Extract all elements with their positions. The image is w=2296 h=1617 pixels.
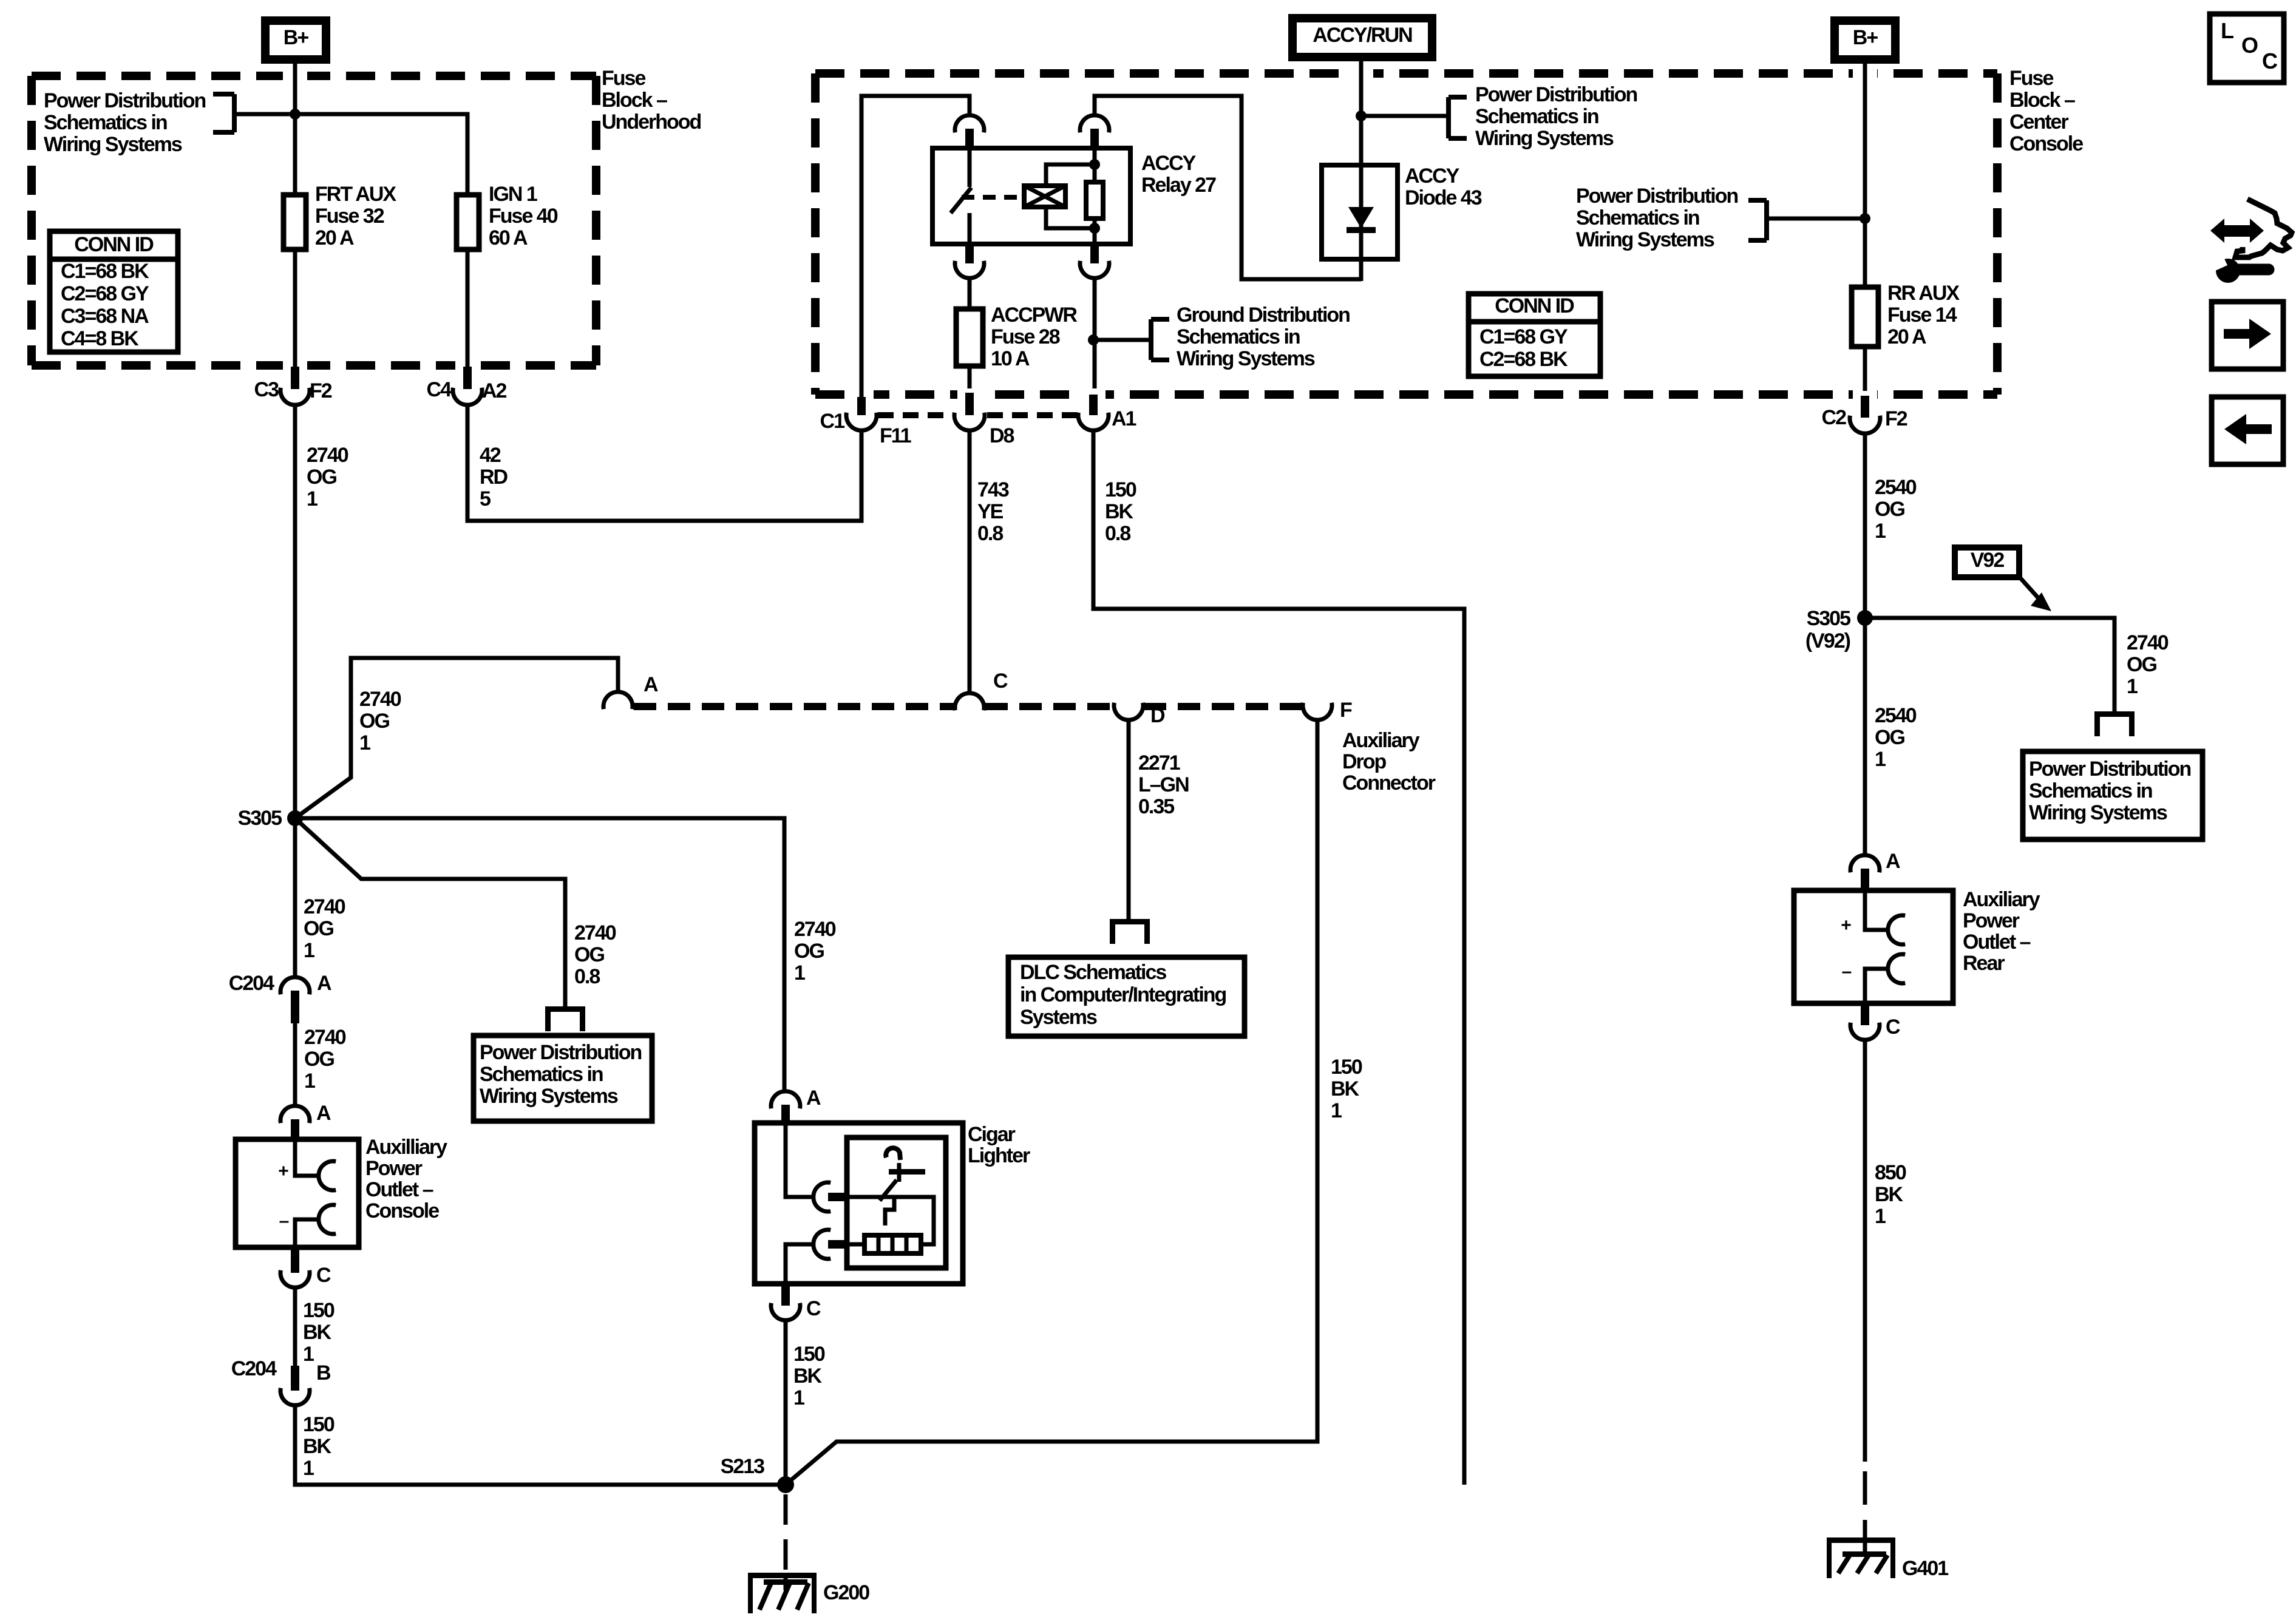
auxiliary power outlet - rear box: [1794, 890, 1953, 1003]
connector relay pin 87 (bottom left): [955, 244, 984, 278]
label circuit 850 BK 1: [1875, 1161, 1906, 1228]
wire ACCY/RUN down to diode splice: [1359, 61, 1364, 165]
svg-text:AuxiliaryDropConnector: AuxiliaryDropConnector: [1342, 729, 1436, 795]
connector rear outlet pin A: [1850, 850, 1900, 890]
svg-text:V92: V92: [1971, 549, 2005, 572]
wire C1 riser to relay pin 30: [861, 96, 970, 398]
svg-text:F2: F2: [1885, 407, 1907, 430]
svg-text:2271L–GN0.35: 2271L–GN0.35: [1138, 751, 1189, 818]
wire S305 branch to cigar lighter: [295, 818, 784, 1091]
conn id table (center console): [1469, 294, 1600, 376]
splice S305 (left): [238, 807, 303, 830]
svg-text:2540OG1: 2540OG1: [1875, 476, 1917, 543]
wire C204 A to console outlet: [293, 1023, 297, 1106]
label cigar lighter: [968, 1123, 1030, 1167]
console outlet plus terminal: [278, 1139, 336, 1190]
label power distribution schematics in wiring systems (right middle): [1576, 185, 1737, 251]
icon arrow previous box: [2212, 397, 2283, 464]
connector console outlet pin C: [280, 1247, 331, 1287]
cigar lighter heater loop wire: [880, 1197, 934, 1244]
svg-text:C3: C3: [254, 378, 279, 401]
node splice on left B+ feed: [290, 109, 301, 120]
svg-text:FuseBlock –CenterConsole: FuseBlock –CenterConsole: [2009, 67, 2083, 155]
svg-text:S213: S213: [721, 1455, 764, 1478]
relay ACCY Relay 27 box: [932, 148, 1130, 244]
svg-text:+: +: [278, 1161, 288, 1181]
svg-text:AuxilliaryPowerOutlet –Console: AuxilliaryPowerOutlet –Console: [365, 1136, 447, 1222]
wire drop D to DLC destination: [1127, 720, 1131, 919]
wire splice to bracket (top right): [1361, 114, 1449, 118]
fuse FRT AUX Fuse 32 20A: [284, 195, 306, 249]
wire C3 to S305 splice: [293, 405, 297, 818]
connector rear outlet pin C: [1850, 1003, 1900, 1040]
svg-text:2740OG1: 2740OG1: [2127, 631, 2169, 698]
wire dashed segment to G401: [1863, 1471, 1867, 1545]
svg-text:O: O: [2241, 33, 2258, 58]
label circuit 2271 L-GN 0.35: [1138, 751, 1189, 818]
cigar lighter element curl: [886, 1148, 900, 1160]
svg-text:C1: C1: [820, 410, 845, 433]
label circuit 743 YE 0.8: [977, 478, 1009, 545]
label fuse 40: [489, 183, 558, 249]
connector C2 pin F2: [1822, 396, 1907, 433]
svg-text:A: A: [316, 1102, 331, 1125]
wire C2 to splice S305 (V92): [1863, 433, 1867, 618]
label circuit 42 RD 5: [480, 444, 508, 510]
bracket reference: power distribution schematics (left): [213, 94, 234, 132]
connector drop pin D: [1114, 703, 1165, 727]
svg-text:150BK1: 150BK1: [793, 1343, 825, 1409]
conn id table (underhood): [50, 231, 178, 352]
rear outlet plus terminal: [1841, 890, 1905, 944]
cigar lighter outer box: [755, 1123, 963, 1284]
bracket reference: ground distribution: [1151, 319, 1169, 360]
svg-text:D8: D8: [990, 424, 1014, 447]
node splice ground ref: [1088, 334, 1099, 345]
svg-text:C: C: [993, 670, 1008, 693]
svg-text:2740OG1: 2740OG1: [359, 688, 401, 754]
label circuit 150 BK 1 (drop F): [1331, 1056, 1362, 1122]
fuse block - underhood dashed box: [32, 67, 596, 374]
cigar lighter feed socket: [786, 1123, 880, 1212]
relay resistor: [1086, 148, 1103, 244]
icon vehicle outline with arrow and wrench: [2210, 199, 2292, 283]
svg-text:RR AUXFuse 1420 A: RR AUXFuse 1420 A: [1887, 282, 1960, 348]
label circuit 150 BK 0.8: [1105, 478, 1136, 545]
wire S305 down to C204 A: [293, 818, 297, 977]
svg-text:B+: B+: [284, 26, 309, 49]
relay switch: [951, 148, 1024, 244]
svg-text:850BK1: 850BK1: [1875, 1161, 1906, 1228]
destination symbol (DLC): [1110, 919, 1150, 944]
boxed reference: DLC schematics: [1008, 957, 1245, 1036]
wire splice to ground bracket: [1093, 338, 1151, 342]
connector relay pin 86 (top right): [1080, 115, 1109, 148]
splice S213: [721, 1455, 794, 1493]
wire C4 42 RD 5 over to C1: [467, 405, 861, 521]
label fuse 28: [991, 303, 1077, 370]
power rail ACCY/RUN box: [1292, 18, 1432, 57]
relay coil (boxed X): [1024, 164, 1095, 228]
wire D8 to drop connector C: [968, 430, 972, 692]
console outlet minus terminal: [279, 1205, 336, 1247]
svg-text:(V92): (V92): [1805, 629, 1850, 653]
power rail B+ box (right): [1835, 21, 1895, 59]
connector C3 pin F2: [254, 367, 332, 405]
fuse RR AUX Fuse 14 20A: [1852, 287, 1878, 347]
node splice above ACCY diode: [1356, 110, 1367, 121]
svg-text:G200: G200: [823, 1581, 869, 1604]
cigar lighter return socket: [786, 1230, 864, 1284]
label fuse 14: [1887, 282, 1960, 348]
connector drop pin F: [1303, 699, 1352, 722]
destination symbol (left): [545, 1006, 585, 1031]
V92 tag box: [1955, 547, 2019, 577]
svg-text:2740OG1: 2740OG1: [304, 895, 345, 962]
wire splice to bracket (right middle): [1767, 217, 1865, 221]
label circuit 2740 OG 1 (outlet feed): [304, 1026, 346, 1093]
auxiliary drop connector dashed line: [634, 703, 1302, 710]
svg-text:A1: A1: [1112, 407, 1136, 430]
label power distribution schematics in wiring systems (top right): [1475, 83, 1637, 150]
wire fuse 32 to C3: [293, 249, 297, 367]
svg-text:FRT AUXFuse 3220 A: FRT AUXFuse 3220 A: [315, 183, 396, 249]
label power distribution schematics in wiring systems (left): [44, 89, 205, 156]
wire C204 B to S213: [295, 1406, 786, 1485]
svg-text:D: D: [1150, 704, 1165, 727]
label circuit 2740 OG 1 (cigar lighter): [794, 918, 836, 985]
fuse block - center console / IP dashed box: [815, 65, 1997, 403]
wire B+ right down to RR AUX fuse: [1863, 64, 1867, 287]
cigar lighter switch blade: [880, 1180, 897, 1201]
bracket reference: power distribution schematics (right middle): [1748, 200, 1767, 240]
svg-text:G401: G401: [1902, 1557, 1948, 1580]
svg-text:2540OG1: 2540OG1: [1875, 704, 1917, 771]
svg-text:S305: S305: [238, 807, 282, 830]
wire drop F to S213: [786, 720, 1317, 1485]
connector console outlet pin A: [280, 1102, 331, 1139]
cigar lighter element contact: [889, 1163, 925, 1182]
ground G401: [1827, 1537, 1948, 1580]
label fuse block - center console: [2009, 67, 2083, 155]
svg-text:C: C: [2262, 49, 2278, 73]
cigar lighter inner case: [847, 1137, 946, 1268]
connector C204 pin B: [231, 1357, 331, 1405]
svg-text:ACCPWRFuse 2810 A: ACCPWRFuse 2810 A: [991, 303, 1077, 370]
svg-text:C: C: [316, 1264, 331, 1287]
svg-text:A: A: [806, 1086, 821, 1110]
label fuse 32: [315, 183, 396, 249]
splice S305 (V92): [1805, 607, 1873, 653]
wire B+ left down to fuse FRT AUX: [293, 64, 297, 195]
auxilliary power outlet - console box: [236, 1139, 359, 1247]
svg-text:C4: C4: [427, 378, 452, 401]
svg-text:CONN ID: CONN ID: [74, 233, 154, 256]
connector pin D8: [954, 393, 1014, 447]
label circuit 2540 OG 1 (lower right): [1875, 704, 1917, 771]
svg-text:B+: B+: [1853, 26, 1878, 49]
wire dashed segment to G200: [784, 1494, 788, 1578]
wire relay 85 to A1: [1093, 279, 1097, 388]
label circuit 2540 OG 1 (upper right): [1875, 476, 1917, 543]
label auxiliary power outlet - rear: [1963, 888, 2040, 975]
connector C1 pin F11: [820, 397, 911, 447]
icon arrow next box: [2212, 302, 2283, 369]
wire cigar lighter to S213: [784, 1321, 788, 1485]
wire relay 87 to fuse ACCPWR: [968, 279, 972, 309]
label fuse block - underhood: [602, 67, 701, 134]
svg-text:ACCY/RUN: ACCY/RUN: [1313, 24, 1412, 47]
svg-text:AuxiliaryPowerOutlet –Rear: AuxiliaryPowerOutlet –Rear: [1963, 888, 2040, 975]
connector C4 pin A2: [427, 367, 507, 405]
label circuit 2740 OG 1 (C3 drop): [307, 444, 348, 510]
connector cigar lighter pin C: [771, 1284, 821, 1320]
label auxiliary drop connector: [1342, 729, 1436, 795]
svg-text:ACCYRelay 27: ACCYRelay 27: [1141, 152, 1216, 197]
label circuit 2740 OG 1 (below S305): [304, 895, 345, 962]
wire fuse 40 to C4: [466, 249, 470, 367]
label circuit 150 BK 1 (above C204 B): [303, 1299, 335, 1366]
label circuit 2740 OG 0.8: [574, 921, 616, 988]
svg-text:42RD5: 42RD5: [480, 444, 508, 510]
svg-text:743YE0.8: 743YE0.8: [977, 478, 1009, 545]
wire bracket to IGN 1 fuse feed: [237, 114, 467, 195]
label ACCY Diode 43: [1405, 164, 1482, 209]
wire fuse 28 to D8: [968, 366, 972, 388]
svg-text:ACCYDiode 43: ACCYDiode 43: [1405, 164, 1482, 209]
rear outlet minus terminal: [1842, 954, 1906, 1003]
svg-text:150BK0.8: 150BK0.8: [1105, 478, 1136, 545]
svg-text:2740OG1: 2740OG1: [794, 918, 836, 985]
connector pin A1: [1078, 395, 1136, 430]
svg-text:F: F: [1340, 699, 1352, 722]
wire S305 down to rear outlet: [1863, 618, 1867, 855]
wire diode up from relay 86 path: [1359, 259, 1364, 281]
svg-text:A: A: [317, 972, 331, 995]
power rail B+ box (left): [265, 21, 326, 59]
connector relay pin 85 (bottom right): [1080, 244, 1109, 278]
label circuit 150 BK 1 (below C204 B): [303, 1413, 335, 1480]
svg-text:B: B: [316, 1361, 331, 1385]
connector relay pin 30 (top left): [955, 115, 984, 148]
label circuit 2740 OG 1 (branch A): [359, 688, 401, 754]
node splice right B+ feed: [1860, 213, 1870, 224]
fuse IGN 1 Fuse 40 60A: [457, 195, 479, 249]
wire fuse 14 to C2: [1863, 347, 1867, 391]
connector drop pin C: [955, 670, 1008, 710]
label auxilliary power outlet - console: [365, 1136, 447, 1222]
wire relay pin 86 to diode bottom: [1095, 96, 1361, 279]
diode symbol: [1347, 165, 1376, 259]
dotted connector line C1: [878, 412, 1077, 418]
svg-text:2740OG0.8: 2740OG0.8: [574, 921, 616, 988]
svg-text:C: C: [806, 1297, 821, 1320]
svg-text:C: C: [1886, 1015, 1900, 1039]
svg-text:Power DistributionSchematics i: Power DistributionSchematics inWiring Sy…: [480, 1041, 641, 1108]
label ACCY Relay 27: [1141, 152, 1216, 197]
diode ACCY Diode 43 box: [1322, 165, 1398, 259]
label circuit 150 BK 1 (cigar lighter): [793, 1343, 825, 1409]
svg-text:C1=68 GYC2=68 BK: C1=68 GYC2=68 BK: [1479, 325, 1568, 371]
svg-text:150BK1: 150BK1: [1331, 1056, 1362, 1122]
connector C204 pin A: [229, 972, 331, 1023]
svg-text:Power DistributionSchematics i: Power DistributionSchematics inWiring Sy…: [1475, 83, 1637, 150]
LOC legend box: [2210, 14, 2284, 83]
svg-text:C1=68 BKC2=68 GYC3=68 NAC4=8 B: C1=68 BKC2=68 GYC3=68 NAC4=8 BK: [61, 260, 149, 350]
wire console outlet to C204 B: [293, 1288, 297, 1366]
svg-text:DLC Schematicsin Computer/Inte: DLC Schematicsin Computer/IntegratingSys…: [1020, 961, 1226, 1029]
svg-text:Power DistributionSchematics i: Power DistributionSchematics inWiring Sy…: [2029, 758, 2190, 824]
svg-text:Power DistributionSchematics i: Power DistributionSchematics inWiring Sy…: [44, 89, 205, 156]
svg-text:2740OG1: 2740OG1: [304, 1026, 346, 1093]
cigar lighter heater block: [864, 1235, 921, 1253]
svg-text:IGN 1Fuse 4060 A: IGN 1Fuse 4060 A: [489, 183, 558, 249]
svg-text:Ground DistributionSchematics: Ground DistributionSchematics inWiring S…: [1177, 303, 1350, 370]
svg-text:F11: F11: [880, 424, 911, 447]
svg-text:A: A: [1886, 850, 1900, 873]
connector drop pin A: [603, 673, 658, 709]
svg-text:–: –: [279, 1211, 289, 1231]
wire rear outlet to G401: [1863, 1040, 1867, 1462]
connector cigar lighter pin A: [771, 1086, 821, 1123]
svg-text:150BK1: 150BK1: [303, 1413, 335, 1480]
svg-text:–: –: [1842, 961, 1852, 981]
wire S305 branch to destination box: [295, 818, 565, 1006]
V92 arrow: [2019, 576, 2051, 611]
svg-text:+: +: [1841, 915, 1851, 935]
svg-text:2740OG1: 2740OG1: [307, 444, 348, 510]
svg-text:A: A: [644, 673, 658, 696]
svg-text:F2: F2: [310, 379, 332, 402]
svg-text:L: L: [2221, 18, 2233, 43]
fuse ACCPWR Fuse 28 10A: [956, 309, 983, 366]
svg-text:FuseBlock –Underhood: FuseBlock –Underhood: [602, 67, 701, 134]
wire S305 branch to drop connector A: [295, 658, 618, 818]
svg-text:CigarLighter: CigarLighter: [968, 1123, 1030, 1167]
label circuit 2740 OG 1 (V92 branch): [2127, 631, 2169, 698]
boxed reference: power distribution schematics (bottom left): [474, 1036, 652, 1121]
svg-text:S305: S305: [1807, 607, 1850, 630]
boxed reference: power distribution schematics (V92): [2023, 751, 2203, 839]
destination symbol (V92 branch): [2094, 711, 2135, 736]
svg-text:C2: C2: [1822, 406, 1847, 429]
svg-text:C204: C204: [231, 1357, 277, 1380]
bracket reference: power distribution schematics (top right): [1449, 97, 1467, 138]
svg-text:Power DistributionSchematics i: Power DistributionSchematics inWiring Sy…: [1576, 185, 1737, 251]
ground G200: [748, 1573, 869, 1613]
wire S305 V92 branch to destination: [1865, 618, 2114, 711]
label ground distribution schematics in wiring systems: [1177, 303, 1350, 370]
svg-text:150BK1: 150BK1: [303, 1299, 335, 1366]
cigar lighter bimetal step: [885, 1198, 894, 1225]
svg-text:C204: C204: [229, 972, 274, 995]
svg-text:CONN ID: CONN ID: [1495, 294, 1574, 317]
svg-text:A2: A2: [482, 379, 507, 402]
wire A1 150 BK to right riser: [1093, 430, 1464, 1485]
